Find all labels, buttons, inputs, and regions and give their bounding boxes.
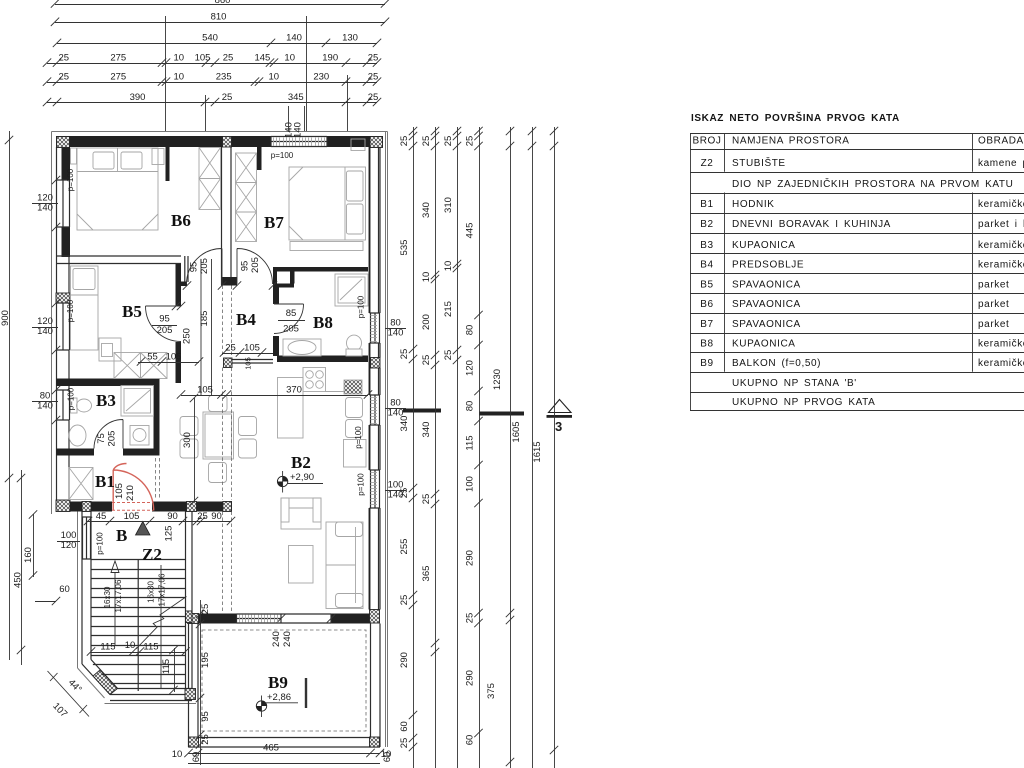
shower B3 [121, 386, 154, 417]
svg-text:25: 25 [399, 136, 410, 147]
kitchen island [278, 378, 304, 439]
svg-text:B3: B3 [700, 240, 713, 251]
svg-text:370: 370 [286, 384, 302, 395]
svg-text:85: 85 [286, 308, 297, 319]
svg-text:keramičke pločice: keramičke pločice [978, 358, 1024, 369]
svg-text:205: 205 [199, 258, 210, 274]
svg-text:B4: B4 [236, 310, 256, 329]
right wall window living [370, 470, 381, 508]
svg-text:B5: B5 [700, 279, 713, 290]
svg-text:90: 90 [167, 511, 178, 522]
svg-text:16x30: 16x30 [147, 581, 156, 603]
doors (arcs) [94, 249, 304, 511]
desk B5 [99, 338, 121, 361]
svg-text:115: 115 [161, 659, 172, 674]
right wall window B8 [370, 313, 381, 343]
svg-text:105: 105 [195, 52, 211, 63]
kitchen sink [346, 398, 363, 438]
svg-text:DNEVNI BORAVAK I KUHINJA: DNEVNI BORAVAK I KUHINJA [732, 219, 891, 230]
armchair B2 [281, 498, 321, 529]
svg-text:ISKAZ NETO POVRŠINA PRVOG KATA: ISKAZ NETO POVRŠINA PRVOG KATA [691, 111, 900, 124]
svg-text:10: 10 [443, 261, 454, 272]
svg-text:250: 250 [182, 328, 193, 344]
shower B8 [335, 274, 368, 306]
door B8 [274, 304, 304, 334]
bed B7 [289, 139, 366, 251]
svg-text:105: 105 [244, 357, 253, 370]
interior wall B7-B8 top [273, 267, 368, 272]
svg-text:95: 95 [189, 262, 200, 273]
wardrobe B6 [199, 148, 221, 210]
svg-text:45: 45 [96, 511, 107, 522]
svg-text:100: 100 [465, 476, 476, 492]
interior wall B1 bottom / entry [56, 502, 232, 512]
svg-text:25: 25 [222, 92, 233, 103]
dishwasher hatched [344, 380, 362, 394]
svg-text:B6: B6 [700, 299, 713, 310]
svg-text:115: 115 [100, 641, 115, 652]
svg-text:B1: B1 [95, 472, 115, 491]
svg-text:115: 115 [465, 435, 476, 450]
svg-text:BALKON (f=0,50): BALKON (f=0,50) [732, 358, 821, 369]
svg-text:60: 60 [59, 584, 70, 595]
bed B5 [71, 266, 99, 350]
balcony railing walls [189, 624, 381, 748]
svg-text:17x17,06: 17x17,06 [114, 579, 123, 612]
svg-text:140: 140 [388, 328, 404, 339]
room labels [95, 211, 333, 692]
bed B6 [71, 148, 165, 230]
svg-text:300: 300 [182, 432, 193, 448]
interior wall B6/B5 [56, 256, 181, 264]
svg-text:B2: B2 [700, 219, 713, 230]
door B7 [237, 249, 273, 285]
svg-text:255: 255 [399, 539, 410, 555]
level marker B9 [256, 696, 298, 718]
svg-text:365: 365 [421, 566, 432, 582]
interior wall B8 left with step [273, 272, 295, 357]
interior wall B6/B7 divider [222, 147, 232, 286]
toilet B3 [71, 398, 92, 413]
svg-text:25: 25 [465, 613, 476, 624]
svg-text:140: 140 [388, 408, 404, 419]
svg-text:25: 25 [200, 604, 211, 615]
svg-text:340: 340 [421, 202, 432, 218]
svg-text:140: 140 [37, 401, 53, 412]
svg-text:Z2: Z2 [142, 545, 162, 564]
svg-text:105: 105 [124, 511, 140, 522]
wall stub B6 [166, 147, 170, 181]
door B5 [146, 306, 182, 342]
svg-text:10: 10 [125, 640, 136, 651]
svg-text:SPAVAONICA: SPAVAONICA [732, 279, 801, 290]
svg-text:OBRADA PODA: OBRADA PODA [978, 136, 1024, 147]
svg-text:25: 25 [368, 92, 379, 103]
svg-text:p=100: p=100 [271, 151, 294, 160]
svg-text:B7: B7 [264, 213, 284, 232]
svg-text:B3: B3 [96, 391, 116, 410]
svg-text:25: 25 [225, 342, 236, 353]
svg-text:B7: B7 [700, 319, 713, 330]
svg-text:B8: B8 [313, 313, 333, 332]
interior dimension labels and annotations [32, 138, 406, 720]
svg-text:445: 445 [465, 223, 476, 239]
svg-text:160: 160 [23, 547, 34, 563]
svg-text:25: 25 [399, 595, 410, 606]
svg-text:140: 140 [293, 122, 304, 138]
section marker bars and triangle 3 [403, 400, 572, 435]
svg-text:205: 205 [107, 431, 118, 447]
svg-text:105: 105 [166, 351, 182, 362]
svg-text:B5: B5 [122, 302, 142, 321]
svg-text:275: 275 [110, 71, 126, 82]
balcony post [305, 678, 307, 708]
svg-text:105: 105 [197, 384, 213, 395]
sink B8 [283, 339, 321, 356]
svg-text:140: 140 [388, 490, 404, 501]
svg-text:25: 25 [465, 136, 476, 147]
svg-text:75: 75 [96, 433, 107, 444]
svg-text:60: 60 [399, 721, 410, 732]
outer wall right [370, 147, 381, 610]
wardrobe B1 [69, 468, 93, 500]
svg-text:235: 235 [216, 71, 232, 82]
door B6 [187, 249, 223, 285]
svg-text:parket: parket [978, 319, 1009, 330]
svg-text:BROJ: BROJ [692, 136, 721, 147]
svg-text:SPAVAONICA: SPAVAONICA [732, 319, 801, 330]
washing machine B3 [130, 426, 149, 446]
svg-text:860: 860 [215, 0, 231, 6]
svg-text:25: 25 [197, 511, 208, 522]
svg-text:25: 25 [421, 494, 432, 505]
svg-text:200: 200 [421, 314, 432, 330]
svg-text:210: 210 [125, 485, 136, 501]
stair enclosure right wall [186, 512, 193, 701]
svg-text:215: 215 [443, 301, 454, 317]
svg-text:25: 25 [368, 52, 379, 63]
dimension chains (top/left/right/bottom) [0, 0, 558, 768]
svg-text:120: 120 [465, 360, 476, 376]
svg-text:+2,90: +2,90 [290, 472, 314, 483]
right wall window kitchen [370, 395, 381, 425]
svg-text:900: 900 [0, 310, 11, 326]
svg-text:290: 290 [465, 670, 476, 686]
svg-text:145: 145 [254, 52, 270, 63]
stair enclosure bottom wall [110, 689, 192, 701]
cooktop [303, 368, 344, 392]
svg-text:HODNIK: HODNIK [732, 199, 775, 210]
svg-text:310: 310 [443, 197, 454, 213]
svg-text:PREDSOBLJE: PREDSOBLJE [732, 259, 804, 270]
svg-text:55: 55 [147, 351, 158, 362]
svg-text:205: 205 [283, 324, 299, 335]
svg-text:44°: 44° [66, 677, 84, 695]
svg-text:450: 450 [13, 572, 24, 588]
hatch blocks at wall junctions [56, 137, 383, 748]
outer wall top [56, 136, 383, 147]
windows [57, 137, 381, 624]
svg-text:465: 465 [263, 743, 279, 754]
left wall window B3 [57, 390, 70, 420]
svg-text:B6: B6 [171, 211, 191, 230]
svg-text:keramičke pločice: keramičke pločice [978, 240, 1024, 251]
svg-text:10: 10 [174, 71, 185, 82]
svg-text:25: 25 [421, 355, 432, 366]
svg-text:105: 105 [114, 483, 125, 499]
svg-text:60: 60 [465, 735, 476, 746]
svg-text:B8: B8 [700, 339, 713, 350]
svg-text:keramičke pločice: keramičke pločice [978, 339, 1024, 350]
svg-text:80: 80 [465, 325, 476, 336]
toilet B8 [346, 335, 362, 356]
svg-text:25: 25 [399, 349, 410, 360]
svg-text:DIO NP ZAJEDNIČKIH PROSTORA NA: DIO NP ZAJEDNIČKIH PROSTORA NA PRVOM KAT… [732, 177, 1013, 190]
svg-text:25: 25 [421, 136, 432, 147]
svg-text:p=100: p=100 [66, 168, 75, 191]
svg-text:130: 130 [342, 33, 358, 44]
svg-text:60: 60 [191, 752, 202, 763]
svg-text:p=100: p=100 [354, 426, 363, 449]
svg-text:25: 25 [443, 136, 454, 147]
svg-text:25: 25 [59, 52, 70, 63]
svg-text:keramičke pločice: keramičke pločice [978, 199, 1024, 210]
svg-text:1605: 1605 [511, 421, 522, 442]
svg-text:parket i keram.: parket i keram. [978, 219, 1024, 230]
svg-text:1230: 1230 [492, 369, 503, 390]
interior wall B7/B4 door jambs [181, 272, 277, 287]
svg-text:25: 25 [223, 52, 234, 63]
dining table [203, 412, 234, 459]
svg-text:p=100: p=100 [67, 387, 76, 410]
svg-text:240: 240 [282, 631, 293, 647]
svg-text:205: 205 [250, 257, 261, 273]
svg-text:STUBIŠTE: STUBIŠTE [732, 156, 786, 169]
svg-text:375: 375 [486, 683, 497, 699]
svg-text:345: 345 [288, 92, 304, 103]
svg-text:25: 25 [368, 71, 379, 82]
balcony window part [237, 614, 282, 623]
svg-text:535: 535 [399, 240, 410, 256]
svg-text:B1: B1 [700, 199, 713, 210]
svg-text:keramičke pločice: keramičke pločice [978, 259, 1024, 270]
sink B3 [69, 425, 86, 446]
svg-text:95: 95 [240, 261, 251, 272]
door jamb lines B6/B4 [185, 256, 188, 282]
svg-text:B9: B9 [268, 673, 288, 692]
dashed projection lines [156, 286, 367, 732]
eaves outline around building [52, 132, 388, 748]
svg-text:25: 25 [200, 734, 211, 745]
half wall B4/kitchen [232, 360, 273, 364]
left wall window B5 [57, 303, 70, 350]
sofa [326, 522, 363, 609]
svg-text:B2: B2 [291, 453, 311, 472]
room schedule table: ISKAZ NETO POVRSINA PRVOG KATA [690, 111, 1024, 411]
svg-text:90: 90 [211, 511, 222, 522]
left wall window B6 [57, 180, 70, 227]
svg-text:Z2: Z2 [701, 158, 714, 169]
svg-text:KUPAONICA: KUPAONICA [732, 240, 796, 251]
svg-text:195: 195 [200, 652, 211, 668]
stair window left [83, 517, 91, 559]
svg-text:205: 205 [157, 325, 173, 336]
svg-text:140: 140 [37, 203, 53, 214]
stair enclosure left wall [82, 512, 118, 695]
interior wall B3 top [56, 379, 160, 387]
svg-text:340: 340 [421, 422, 432, 438]
svg-text:275: 275 [110, 52, 126, 63]
svg-text:290: 290 [399, 652, 410, 668]
svg-text:115: 115 [143, 641, 158, 652]
svg-text:140: 140 [286, 33, 302, 44]
balcony door part [281, 614, 331, 623]
svg-text:NAMJENA PROSTORA: NAMJENA PROSTORA [732, 136, 850, 147]
svg-text:16x30: 16x30 [103, 586, 112, 608]
svg-text:10: 10 [172, 749, 183, 760]
svg-text:parket: parket [978, 299, 1009, 310]
interior wall B8 bottom [277, 356, 368, 363]
svg-text:B: B [116, 526, 127, 545]
svg-text:80: 80 [465, 401, 476, 412]
svg-text:SPAVAONICA: SPAVAONICA [732, 299, 801, 310]
svg-text:B4: B4 [700, 259, 713, 270]
svg-text:25: 25 [443, 350, 454, 361]
interior wall B3 bottom [56, 449, 154, 456]
level marker B2 [277, 471, 323, 493]
svg-text:10: 10 [269, 71, 280, 82]
svg-text:p=100: p=100 [96, 532, 105, 555]
svg-text:+2,86: +2,86 [267, 692, 291, 703]
svg-text:107: 107 [50, 701, 69, 720]
svg-text:UKUPNO NP PRVOG KATA: UKUPNO NP PRVOG KATA [732, 397, 875, 408]
outer wall left [56, 147, 70, 500]
svg-text:p=100: p=100 [66, 299, 75, 322]
svg-text:p=100: p=100 [357, 473, 366, 496]
svg-text:95: 95 [200, 711, 211, 722]
svg-text:KUPAONICA: KUPAONICA [732, 339, 796, 350]
svg-text:10: 10 [174, 52, 185, 63]
svg-text:parket: parket [978, 279, 1009, 290]
svg-text:25: 25 [59, 71, 70, 82]
svg-text:125: 125 [164, 526, 175, 542]
svg-text:10: 10 [284, 52, 295, 63]
door B3 [94, 420, 123, 449]
wardrobe B7 [236, 153, 257, 242]
interior thin lines B4 corridor [201, 259, 212, 396]
level texts [267, 472, 314, 703]
interior wall B3 right [154, 386, 160, 456]
svg-text:1615: 1615 [532, 441, 543, 462]
svg-text:60: 60 [382, 752, 393, 763]
svg-text:17x17,06: 17x17,06 [158, 573, 167, 606]
svg-text:230: 230 [313, 71, 329, 82]
svg-text:kamene ploče: kamene ploče [978, 158, 1024, 169]
svg-text:10: 10 [421, 272, 432, 283]
svg-text:3: 3 [555, 419, 562, 434]
svg-text:810: 810 [211, 12, 227, 23]
wall B2/balcony [199, 614, 371, 624]
furniture [69, 139, 368, 708]
wardrobe B5 [114, 353, 167, 379]
svg-text:290: 290 [465, 550, 476, 566]
staircase Z2 treads and flight lines [91, 559, 187, 691]
svg-text:105: 105 [244, 342, 260, 353]
door B1 red [113, 464, 154, 511]
svg-text:185: 185 [199, 311, 210, 327]
svg-text:UKUPNO NP STANA 'B': UKUPNO NP STANA 'B' [732, 378, 857, 389]
svg-text:540: 540 [202, 33, 218, 44]
coffee table [289, 546, 314, 584]
short wall stub below top window [257, 147, 262, 170]
window top (p=100) [271, 137, 327, 147]
fridge [344, 440, 367, 468]
svg-text:240: 240 [271, 631, 282, 647]
entry marker B + triangle [116, 522, 150, 546]
svg-text:95: 95 [159, 314, 170, 325]
dining chairs [180, 396, 257, 483]
svg-text:p=100: p=100 [357, 295, 366, 318]
svg-text:390: 390 [130, 92, 146, 103]
svg-text:25: 25 [399, 738, 410, 749]
interior wall B5 right [176, 264, 182, 383]
svg-text:B9: B9 [700, 358, 713, 369]
svg-text:190: 190 [322, 52, 338, 63]
